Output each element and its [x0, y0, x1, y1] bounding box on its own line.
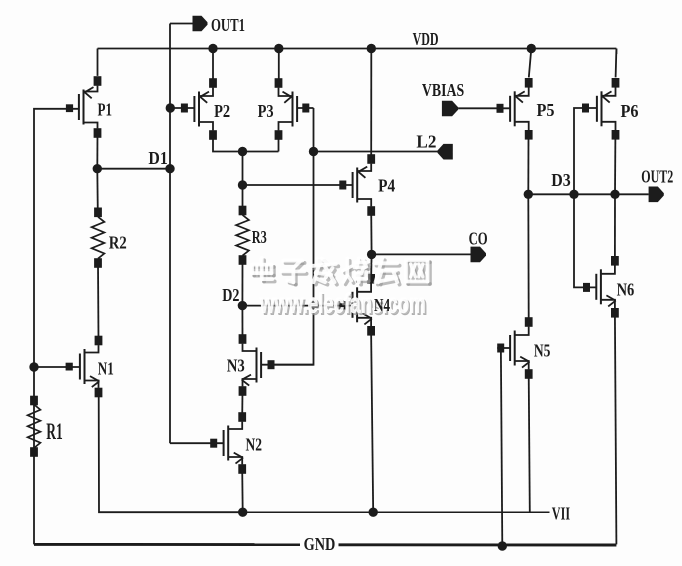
svg-text:OUT1: OUT1 — [211, 15, 245, 35]
svg-text:P2: P2 — [214, 101, 230, 121]
svg-text:N5: N5 — [534, 341, 551, 361]
svg-text:CO: CO — [469, 229, 488, 249]
svg-text:VII: VII — [552, 503, 570, 523]
svg-text:GND: GND — [304, 534, 336, 554]
svg-text:N2: N2 — [246, 435, 263, 455]
svg-text:N4: N4 — [374, 295, 390, 315]
svg-text:N3: N3 — [227, 355, 245, 375]
svg-text:P5: P5 — [537, 100, 555, 120]
svg-text:P6: P6 — [621, 101, 639, 121]
svg-text:D2: D2 — [222, 285, 239, 305]
svg-text:N6: N6 — [617, 279, 635, 299]
svg-text:VBIAS: VBIAS — [422, 80, 464, 100]
svg-text:R2: R2 — [109, 233, 127, 253]
svg-text:P4: P4 — [378, 175, 395, 195]
svg-text:D1: D1 — [148, 148, 167, 168]
svg-text:www.elecfans.com: www.elecfans.com — [259, 288, 425, 319]
svg-text:L2: L2 — [416, 131, 436, 151]
svg-text:D3: D3 — [551, 170, 571, 190]
svg-text:P1: P1 — [98, 100, 113, 120]
svg-text:VDD: VDD — [413, 29, 439, 49]
svg-text:R1: R1 — [46, 419, 63, 444]
svg-text:N1: N1 — [98, 359, 114, 379]
svg-text:P3: P3 — [258, 101, 274, 121]
svg-text:R3: R3 — [252, 227, 267, 247]
svg-text:OUT2: OUT2 — [641, 167, 673, 187]
